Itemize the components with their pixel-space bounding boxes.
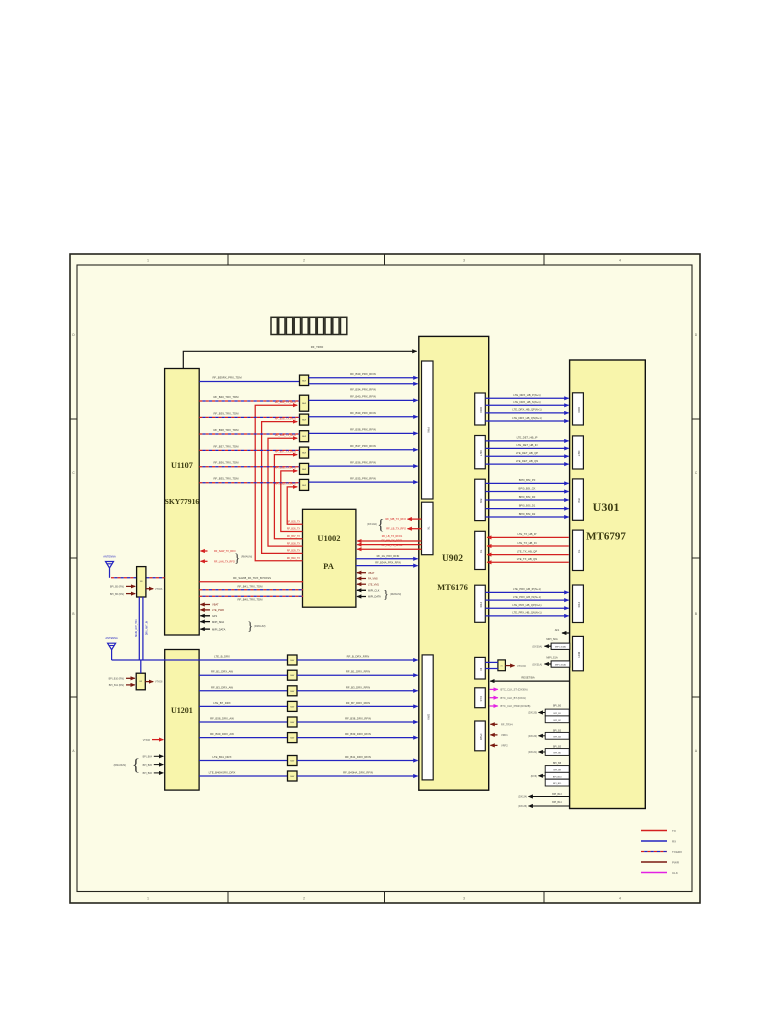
svg-text:RF_B40_TX: RF_B40_TX [287, 557, 301, 560]
svg-text:LTE_DET_HB_QN: LTE_DET_HB_QN [516, 459, 538, 463]
svg-text:RF_B35_PRX_RFIN: RF_B35_PRX_RFIN [350, 476, 376, 480]
svg-text:BPI0_BSI_D2: BPI0_BSI_D2 [519, 512, 536, 516]
svg-text:RF_B_DRX_RFIN: RF_B_DRX_RFIN [347, 655, 370, 659]
svg-text:RF_LAN_TX_RFO: RF_LAN_TX_RFO [214, 561, 235, 564]
svg-text:U1201: U1201 [171, 706, 193, 715]
svg-text:RF_B40_TRX_TDM: RF_B40_TRX_TDM [213, 395, 239, 399]
svg-text:2: 2 [303, 897, 305, 901]
svg-text:RF_B39RX_PRX_TDM: RF_B39RX_PRX_TDM [212, 376, 242, 380]
svg-text:SAW: SAW [290, 737, 294, 740]
svg-text:MIPI_S1A: MIPI_S1A [546, 656, 558, 659]
svg-text:SAW: SAW [302, 484, 306, 487]
svg-text:DRX: DRX [427, 714, 431, 720]
svg-text:MT6797: MT6797 [586, 531, 626, 543]
svg-text:SKY77916: SKY77916 [165, 497, 200, 506]
svg-text:(DX6): (DX6) [531, 775, 537, 778]
svg-text:LTE_PWR: LTE_PWR [212, 608, 224, 612]
svg-text:(DX31A): (DX31A) [532, 663, 542, 666]
svg-text:VTX08: VTX08 [155, 681, 163, 684]
svg-text:X1: X1 [500, 665, 502, 667]
svg-text:LTE_PRX_HB_QP(N+1): LTE_PRX_HB_QP(N+1) [512, 603, 541, 607]
svg-text:BSI: BSI [479, 499, 483, 504]
svg-text:VRF1: VRF1 [501, 733, 508, 737]
svg-text:(DX130): (DX130) [528, 712, 537, 715]
svg-text:RF_B38_TX: RF_B38_TX [287, 542, 301, 545]
svg-text:RF_B40_TRX_TDM: RF_B40_TRX_TDM [237, 597, 263, 601]
svg-text:SAW: SAW [290, 674, 294, 677]
svg-text:RF_B35_TX: RF_B35_TX [287, 520, 301, 523]
svg-text:B: B [695, 612, 697, 616]
svg-text:MIPI_CLK: MIPI_CLK [368, 590, 380, 593]
svg-text:RF_B38_TRX_TDM: RF_B38_TRX_TDM [213, 428, 239, 432]
svg-text:LTE_B_DRX: LTE_B_DRX [214, 655, 230, 659]
svg-text:RF_LB_TX_RFO: RF_LB_TX_RFO [386, 527, 406, 531]
svg-text:RF_B39_DRX_AW: RF_B39_DRX_AW [210, 732, 234, 736]
svg-text:SAW: SAW [302, 452, 306, 455]
svg-text:BPI_B9: BPI_B9 [553, 770, 561, 772]
svg-text:PA_VM0: PA_VM0 [368, 578, 378, 581]
svg-text:DRX_ANT_IN: DRX_ANT_IN [146, 621, 149, 636]
svg-text:MIPI: MIPI [577, 652, 581, 658]
svg-text:DRX: DRX [479, 407, 483, 413]
svg-text:PRX: PRX [577, 602, 581, 608]
svg-text:RF_HB_TX_RFO1: RF_HB_TX_RFO1 [382, 544, 403, 547]
svg-text:}: } [383, 587, 389, 601]
svg-text:TX&RX: TX&RX [672, 850, 682, 854]
svg-text:(RMAUM): (RMAUM) [241, 556, 252, 559]
svg-text:BSI: BSI [577, 498, 581, 503]
svg-text:MT6176: MT6176 [437, 582, 468, 592]
svg-text:SAW: SAW [290, 690, 294, 693]
svg-text:RF_B39_DRX_RFIN: RF_B39_DRX_RFIN [345, 732, 371, 736]
svg-text:(DX136): (DX136) [518, 805, 527, 808]
svg-text:DET: DET [479, 450, 483, 456]
svg-text:TX: TX [577, 550, 581, 554]
svg-text:BPI0_BSI_D0: BPI0_BSI_D0 [519, 495, 536, 499]
svg-text:AF1: AF1 [555, 629, 560, 632]
svg-text:RESET/BA: RESET/BA [521, 676, 534, 680]
svg-text:GP1: GP1 [212, 614, 218, 618]
svg-text:LTE_TX_HB_IN: LTE_TX_HB_IN [517, 541, 536, 545]
svg-text:(RMAUM): (RMAUM) [390, 593, 401, 596]
svg-text:MIPI_DATA: MIPI_DATA [212, 627, 226, 631]
svg-text:RF_SAW_TX_RFO: RF_SAW_TX_RFO [214, 550, 236, 553]
svg-text:TX: TX [426, 526, 430, 530]
svg-text:LTE_DRX_HB_N(N+1): LTE_DRX_HB_N(N+1) [513, 400, 540, 404]
svg-text:PRX: PRX [426, 427, 430, 433]
svg-text:1: 1 [147, 259, 149, 263]
svg-text:BPI_B3: BPI_B3 [553, 729, 562, 732]
svg-text:LTE_PRX_HB_QN(N+1): LTE_PRX_HB_QN(N+1) [512, 611, 541, 615]
svg-text:BPI0_BSI_D1: BPI0_BSI_D1 [519, 503, 536, 507]
svg-text:RF_B39_TX_RFO: RF_B39_TX_RFO [275, 416, 296, 420]
svg-text:LTE_PRX_HB_IN(N+1): LTE_PRX_HB_IN(N+1) [513, 595, 541, 599]
svg-text:3: 3 [463, 259, 465, 263]
svg-text:LTE_DRX_HB_QP(N+1): LTE_DRX_HB_QP(N+1) [512, 408, 541, 412]
svg-text:2: 2 [303, 259, 305, 263]
svg-text:MIPI_S1A0: MIPI_S1A0 [555, 663, 567, 666]
svg-text:RF_B40HA_DRX_RFIN: RF_B40HA_DRX_RFIN [343, 771, 373, 775]
svg-text:(DX134): (DX134) [518, 796, 527, 799]
svg-text:MAIN_ANT_TRX: MAIN_ANT_TRX [135, 619, 138, 637]
svg-text:RF_B39_TRX_TDM: RF_B39_TRX_TDM [213, 411, 239, 415]
svg-text:TX: TX [479, 550, 483, 554]
svg-text:BTC_CLK_ST (DX30A): BTC_CLK_ST (DX30A) [501, 688, 528, 692]
svg-text:SAW: SAW [290, 721, 294, 724]
svg-text:RF_B37_PRX_RFIN: RF_B37_PRX_RFIN [350, 444, 376, 448]
svg-text:LTE_TX_HB_IP: LTE_TX_HB_IP [518, 532, 537, 536]
svg-text:(DX10A): (DX10A) [367, 522, 377, 526]
svg-text:RF_B38_PRX_RFIN: RF_B38_PRX_RFIN [350, 428, 376, 432]
svg-text:LTE_B40HSRX_DRX: LTE_B40HSRX_DRX [209, 771, 236, 775]
svg-text:BPI_B04: BPI_B04 [143, 756, 153, 759]
svg-text:U301: U301 [593, 500, 620, 514]
svg-text:RF_LB_TX_RFO1: RF_LB_TX_RFO1 [382, 535, 403, 538]
svg-text:4: 4 [619, 259, 621, 263]
svg-text:RF_B38_TX_RFO: RF_B38_TX_RFO [275, 433, 296, 437]
svg-text:}: } [234, 550, 240, 565]
svg-text:LTE_DET_HB_IP: LTE_DET_HB_IP [517, 436, 538, 440]
svg-text:LTE_TX_HB_QN: LTE_TX_HB_QN [517, 557, 537, 561]
svg-text:RF_B7_DRX_RFIN: RF_B7_DRX_RFIN [346, 701, 370, 705]
svg-text:BPI_B10: BPI_B10 [553, 776, 562, 778]
svg-text:PRX: PRX [479, 602, 483, 608]
svg-text:LTE_TX_HB_QP: LTE_TX_HB_QP [517, 549, 537, 553]
svg-text:VTX06: VTX06 [155, 588, 163, 591]
svg-text:RF_B3_DRX_RFIN: RF_B3_DRX_RFIN [346, 685, 370, 689]
svg-text:BPI_B5 (RM): BPI_B5 (RM) [110, 586, 124, 589]
svg-text:ANTENNA: ANTENNA [105, 636, 118, 640]
svg-text:B: B [72, 612, 74, 616]
svg-text:LTE_DET_HB_QP: LTE_DET_HB_QP [516, 451, 538, 455]
svg-text:U1002: U1002 [317, 533, 340, 543]
svg-text:RF_B35_TRX_TDM: RF_B35_TRX_TDM [213, 477, 239, 481]
svg-text:BTC_CLK_BT (DX31): BTC_CLK_BT (DX31) [501, 696, 526, 700]
svg-text:VRF2: VRF2 [501, 744, 508, 748]
svg-text:VTCXO: VTCXO [517, 664, 526, 668]
svg-text:BPI_B13: BPI_B13 [552, 793, 562, 796]
svg-text:CLK: CLK [672, 871, 678, 875]
svg-text:RF_B39_PRX_RFIN: RF_B39_PRX_RFIN [350, 372, 376, 376]
svg-text:BPI_B4: BPI_B4 [553, 736, 561, 738]
svg-text:U1107: U1107 [171, 461, 193, 470]
svg-text:SAW: SAW [290, 659, 294, 662]
svg-text:(DX130): (DX130) [528, 735, 537, 738]
svg-text:BPI_B6 (RM): BPI_B6 (RM) [110, 593, 124, 596]
svg-text:BPI_B8: BPI_B8 [553, 762, 562, 765]
svg-text:{: { [377, 517, 384, 533]
svg-text:RF_B41_DRX_RFIN: RF_B41_DRX_RFIN [345, 755, 371, 759]
svg-text:BPI_B11: BPI_B11 [553, 783, 562, 785]
svg-text:MIPI_SDA: MIPI_SDA [212, 620, 224, 624]
svg-text:SAW: SAW [302, 419, 306, 422]
svg-text:(DX30A): (DX30A) [532, 646, 542, 649]
svg-text:(RMANUM): (RMANUM) [114, 764, 127, 767]
svg-text:RF_B36_TX: RF_B36_TX [287, 528, 301, 531]
svg-text:RF_2G_PRX_RFIN: RF_2G_PRX_RFIN [377, 554, 400, 558]
svg-text:RF_TRX0: RF_TRX0 [311, 345, 324, 349]
svg-text:RF_TRX4: RF_TRX4 [501, 723, 513, 727]
svg-text:RF_B36_PRX_RFIN: RF_B36_PRX_RFIN [350, 460, 376, 464]
svg-text:DRX: DRX [577, 407, 581, 413]
svg-text:LTE_B41_DRX: LTE_B41_DRX [213, 755, 232, 759]
svg-text:BPI_B6: BPI_B6 [553, 753, 561, 755]
svg-text:PWR: PWR [672, 860, 680, 864]
svg-text:RF_B39_PRX_RFIN: RF_B39_PRX_RFIN [350, 411, 376, 415]
svg-text:LTE_B7_DRX: LTE_B7_DRX [213, 701, 230, 705]
svg-text:BPI_B1: BPI_B1 [553, 713, 561, 715]
svg-text:BPI_B06: BPI_B06 [143, 772, 153, 775]
svg-text:RF_B40_TX_RFO: RF_B40_TX_RFO [275, 400, 296, 404]
svg-text:BPI_B14: BPI_B14 [552, 801, 562, 804]
svg-text:RF_B3_DRX_AW: RF_B3_DRX_AW [211, 685, 233, 689]
svg-text:}: } [247, 618, 253, 633]
svg-text:BPI0_BSI_CK: BPI0_BSI_CK [519, 486, 536, 490]
svg-text:SAW: SAW [290, 775, 294, 778]
svg-text:RF_B40_PRX_RFIN: RF_B40_PRX_RFIN [350, 395, 376, 399]
svg-text:ANTENNA: ANTENNA [103, 555, 116, 559]
svg-text:SAW: SAW [290, 760, 294, 763]
svg-text:1: 1 [147, 897, 149, 901]
svg-text:RF_B36_TRX_TDM: RF_B36_TRX_TDM [213, 461, 239, 465]
svg-text:RF_MB_TX_RFO: RF_MB_TX_RFO [386, 517, 406, 521]
svg-text:MIPI_S0A0: MIPI_S0A0 [555, 646, 567, 649]
svg-text:(RMAUM): (RMAUM) [254, 624, 266, 628]
svg-text:SW: SW [139, 681, 142, 683]
svg-text:U902: U902 [442, 554, 463, 564]
svg-text:RF_B35_TX_RFO: RF_B35_TX_RFO [275, 482, 296, 486]
svg-text:RF_B34A_PRX_RFIN: RF_B34A_PRX_RFIN [375, 561, 401, 565]
svg-text:SW: SW [140, 581, 143, 583]
svg-text:MIPI_S0A: MIPI_S0A [546, 638, 558, 641]
svg-text:SAW: SAW [302, 435, 306, 438]
svg-text:RF_B1_DRX_AW: RF_B1_DRX_AW [211, 670, 233, 674]
svg-text:BPI_B05: BPI_B05 [143, 764, 153, 767]
svg-text:(DX131): (DX131) [528, 751, 537, 754]
svg-text:LTE_DRX_HB_QN(N+1): LTE_DRX_HB_QN(N+1) [512, 416, 542, 420]
svg-text:MIPI_DATA: MIPI_DATA [368, 596, 381, 599]
svg-text:RF_B36_TX_RFO: RF_B36_TX_RFO [275, 466, 296, 470]
svg-text:LTE_VM1: LTE_VM1 [368, 583, 380, 586]
svg-text:DET: DET [577, 451, 581, 457]
svg-text:BPI_B11 (RM): BPI_B11 (RM) [109, 684, 124, 687]
svg-text:VBAT: VBAT [212, 603, 219, 607]
svg-text:BPI0_BSI_P0: BPI0_BSI_P0 [519, 478, 536, 482]
svg-text:BTC_CLK_PWR (DX32B): BTC_CLK_PWR (DX32B) [501, 704, 531, 708]
svg-text:SAW: SAW [302, 468, 306, 471]
svg-text:RF_B34_PRX_RFIN: RF_B34_PRX_RFIN [350, 388, 376, 392]
svg-text:PWR: PWR [479, 734, 483, 741]
svg-text:3: 3 [463, 897, 465, 901]
svg-text:{: { [132, 755, 140, 774]
svg-text:RX: RX [672, 839, 676, 843]
svg-text:BPI_B2: BPI_B2 [553, 720, 561, 722]
svg-text:VTX06: VTX06 [143, 739, 151, 742]
svg-text:RF_B1_DRX_RFIN: RF_B1_DRX_RFIN [346, 670, 370, 674]
svg-text:LTE_DRX_HB_P(N+1): LTE_DRX_HB_P(N+1) [513, 393, 540, 397]
svg-text:VBAT: VBAT [368, 572, 375, 575]
svg-text:RF_B41_TRX_TDM: RF_B41_TRX_TDM [237, 585, 263, 589]
svg-text:BPI_B5: BPI_B5 [553, 746, 562, 749]
svg-text:SAW: SAW [290, 705, 294, 708]
svg-text:RF_B37_TX_RFO: RF_B37_TX_RFO [275, 449, 296, 453]
svg-text:LTE_DET_HB_IN: LTE_DET_HB_IN [516, 443, 537, 447]
svg-text:TX: TX [672, 829, 676, 833]
svg-text:4: 4 [619, 897, 621, 901]
svg-text:RF_SAW8_PA_TRX_BYPASS: RF_SAW8_PA_TRX_BYPASS [233, 576, 271, 580]
svg-text:PA: PA [323, 561, 335, 571]
svg-text:RF_B37_TX: RF_B37_TX [287, 535, 301, 538]
svg-text:SAW: SAW [302, 380, 306, 383]
svg-text:RF_B37_TRX_TDM: RF_B37_TRX_TDM [213, 444, 239, 448]
svg-text:RF_B38_DRX_AW: RF_B38_DRX_AW [210, 717, 234, 721]
svg-text:RF_B38_DRX_RFIN: RF_B38_DRX_RFIN [345, 717, 371, 721]
svg-text:BPI_B10 (RM): BPI_B10 (RM) [109, 678, 125, 681]
svg-text:CLK: CLK [479, 696, 483, 702]
svg-text:RF_B39_TX: RF_B39_TX [287, 550, 301, 553]
svg-text:LTE_PRX_HB_IP(N+1): LTE_PRX_HB_IP(N+1) [513, 587, 541, 591]
svg-text:SAW: SAW [302, 402, 306, 405]
svg-text:BPI_B0: BPI_B0 [553, 705, 562, 708]
svg-text:RF_MB_TX_RFO1: RF_MB_TX_RFO1 [381, 539, 403, 542]
